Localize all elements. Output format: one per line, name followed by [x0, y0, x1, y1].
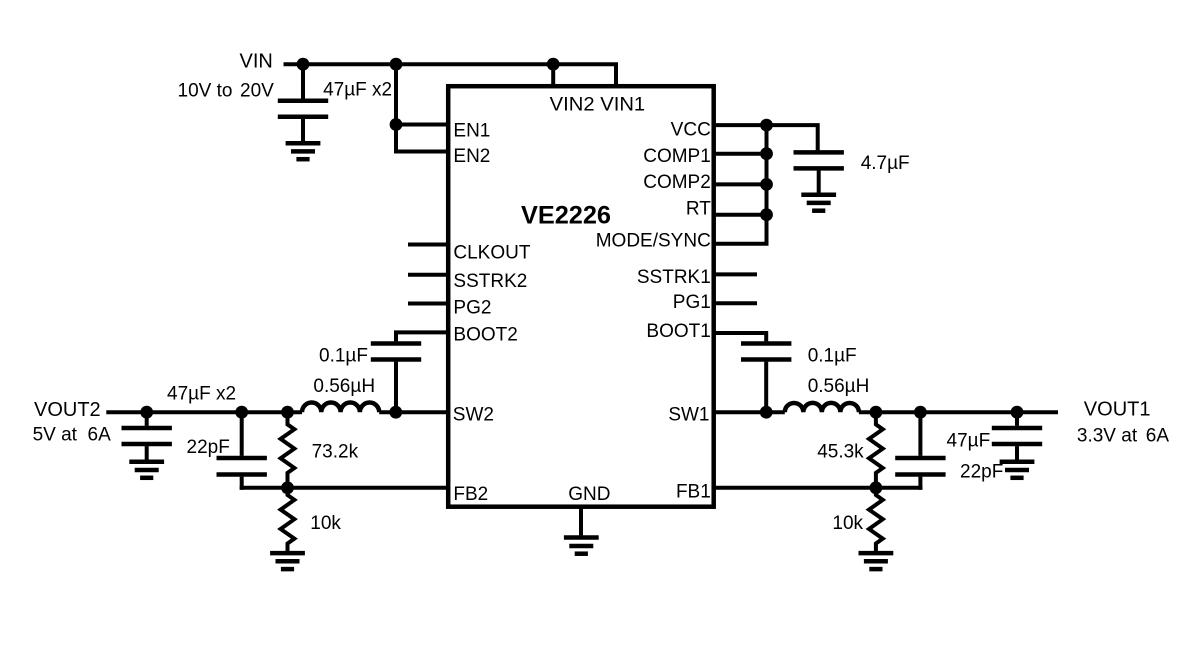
capacitor COUT1 47uF plates [992, 426, 1042, 431]
capacitor COUT2 47uF x2 plates [122, 426, 172, 431]
wire VOUT2 rail left segment [106, 410, 302, 414]
inductor 0.56uH right [785, 403, 859, 412]
wire RT [712, 213, 767, 217]
capacitor 0.1uF left plates [371, 341, 421, 346]
svg-text:SSTRK1: SSTRK1 [637, 267, 711, 288]
svg-text:COMP2: COMP2 [643, 172, 711, 193]
svg-text:VOUT1: VOUT1 [1084, 399, 1151, 421]
svg-text:45.3k: 45.3k [817, 442, 864, 463]
node 22pF right junction [914, 406, 927, 419]
capacitor 0.1uF right plates [741, 341, 791, 346]
svg-text:BOOT2: BOOT2 [453, 324, 517, 345]
svg-text:RT: RT [686, 198, 711, 219]
svg-text:6A: 6A [88, 425, 112, 446]
node junction VIN2 [547, 58, 560, 71]
capacitor COUT2 47uF x2 stem [145, 412, 149, 426]
capacitor 4.7uF plates [794, 150, 844, 155]
resistor 10k left [281, 488, 295, 551]
wire inductor to SW2 pin [379, 410, 450, 414]
svg-text:47µF x2: 47µF x2 [323, 80, 392, 101]
pin PG1 stub [712, 301, 757, 305]
wire COUT2 to ground [145, 446, 149, 460]
ground COUT2 [129, 460, 164, 465]
capacitor COUT1 47uF stem [1015, 412, 1019, 426]
svg-text:22pF: 22pF [187, 437, 230, 458]
svg-text:10V to: 10V to [178, 81, 233, 102]
node boot cap right junction [760, 406, 773, 419]
svg-text:10k: 10k [832, 513, 863, 534]
wire FB2 [240, 486, 450, 490]
resistor 45.3k [869, 412, 883, 488]
capacitor 22pF right plates [895, 456, 945, 461]
svg-text:VOUT2: VOUT2 [34, 399, 101, 421]
capacitor 22pF left plates [217, 456, 267, 461]
svg-text:47µF x2: 47µF x2 [167, 384, 236, 405]
node FB1 junction [870, 481, 883, 494]
svg-text:5V at: 5V at [33, 425, 78, 446]
ground 10k left [270, 551, 305, 556]
wire VIN2 stub [551, 64, 555, 88]
capacitor 22pF left stem [240, 412, 244, 456]
node 45.3k junction [870, 406, 883, 419]
wire COMP2 [712, 182, 767, 186]
svg-text:FB1: FB1 [676, 482, 711, 503]
op-amp U1 VE2226 IC body [448, 86, 714, 507]
svg-text:GND: GND [568, 484, 610, 505]
node RT junction [760, 208, 773, 221]
node COMP1 junction [760, 147, 773, 160]
wire EN1 [396, 123, 450, 127]
resistor 10k right [869, 488, 883, 551]
wire COMP1 [712, 152, 767, 156]
pin SSTRK1 stub [712, 272, 757, 276]
node 22pF left junction [235, 406, 248, 419]
capacitor 22pF right stem [918, 412, 922, 456]
inductor 0.56uH left [302, 403, 379, 413]
svg-text:VIN2 VIN1: VIN2 VIN1 [550, 94, 646, 115]
svg-text:VCC: VCC [671, 120, 711, 141]
svg-text:73.2k: 73.2k [312, 442, 359, 463]
svg-text:BOOT1: BOOT1 [646, 321, 710, 342]
svg-text:0.1µF: 0.1µF [319, 346, 368, 367]
svg-text:COMP1: COMP1 [643, 146, 711, 167]
node VCC junction [760, 119, 773, 132]
svg-text:3.3V at: 3.3V at [1077, 426, 1138, 447]
ground COUT1 [1000, 460, 1035, 465]
node junction EN riser [390, 58, 403, 71]
node VOUT2 cap junction [140, 406, 153, 419]
wire boot cap right to SW1 rail [764, 362, 768, 413]
svg-text:SW2: SW2 [453, 405, 494, 426]
svg-text:10k: 10k [310, 513, 341, 534]
wire bus vertical and MODE/SYNC [712, 123, 767, 244]
pin CLKOUT stub [408, 243, 450, 247]
node boot cap left junction [389, 406, 402, 419]
svg-text:VIN: VIN [240, 51, 273, 73]
wire EN riser and EN2 connection [396, 64, 450, 151]
resistor 73.2k [281, 412, 295, 488]
svg-text:6A: 6A [1146, 426, 1170, 447]
svg-text:PG1: PG1 [673, 292, 711, 313]
svg-text:4.7µF: 4.7µF [861, 153, 910, 174]
wire VCC to bypass cap [712, 125, 818, 150]
wire GND pin stem [579, 507, 583, 535]
node VIN top rail wire [284, 64, 617, 88]
wire CIN to ground [301, 119, 305, 141]
wire 4.7uF to ground [817, 171, 821, 193]
node COMP2 junction [760, 178, 773, 191]
ground IC GND [564, 535, 599, 540]
wire VOUT1 rail right segment [859, 410, 1058, 414]
pin PG2 stub [408, 302, 450, 306]
svg-text:EN2: EN2 [453, 146, 490, 167]
wire BOOT1 to boot cap [712, 333, 766, 341]
wire FB1 [712, 486, 922, 490]
node COUT1 junction [1011, 406, 1024, 419]
wire SW1 pin to inductor [712, 410, 785, 414]
svg-text:EN1: EN1 [453, 120, 490, 141]
svg-text:CLKOUT: CLKOUT [453, 243, 530, 264]
node VIN junction at input cap [297, 58, 310, 71]
svg-text:20V: 20V [240, 81, 274, 102]
svg-text:0.56µH: 0.56µH [313, 376, 375, 397]
svg-text:MODE/SYNC: MODE/SYNC [596, 230, 711, 251]
ground 10k right [859, 551, 894, 556]
svg-text:SW1: SW1 [668, 405, 709, 426]
node FB2 junction [281, 481, 294, 494]
wire boot cap left to SW2 rail [394, 362, 398, 413]
capacitor CIN 47uF x2 plates [278, 99, 328, 104]
svg-text:VE2226: VE2226 [521, 202, 611, 230]
node 73.2k junction [281, 406, 294, 419]
svg-text:47µF: 47µF [947, 431, 991, 452]
svg-text:22pF: 22pF [960, 462, 1003, 483]
wire BOOT2 to boot cap [396, 332, 450, 341]
ground 4.7uF [801, 192, 836, 197]
pin SSTRK2 stub [408, 273, 450, 277]
wire COUT1 to ground [1015, 446, 1019, 460]
wire 22pF left to FB2 line [240, 477, 244, 490]
wire 22pF right to FB1 line [918, 477, 922, 490]
ground CIN [286, 141, 321, 146]
capacitor CIN 47uF x2 stem [301, 64, 305, 99]
svg-text:FB2: FB2 [453, 484, 488, 505]
svg-text:PG2: PG2 [453, 298, 491, 319]
node EN1 junction [390, 118, 403, 131]
svg-text:0.1µF: 0.1µF [808, 346, 857, 367]
svg-text:SSTRK2: SSTRK2 [453, 271, 527, 292]
svg-text:0.56µH: 0.56µH [808, 376, 870, 397]
